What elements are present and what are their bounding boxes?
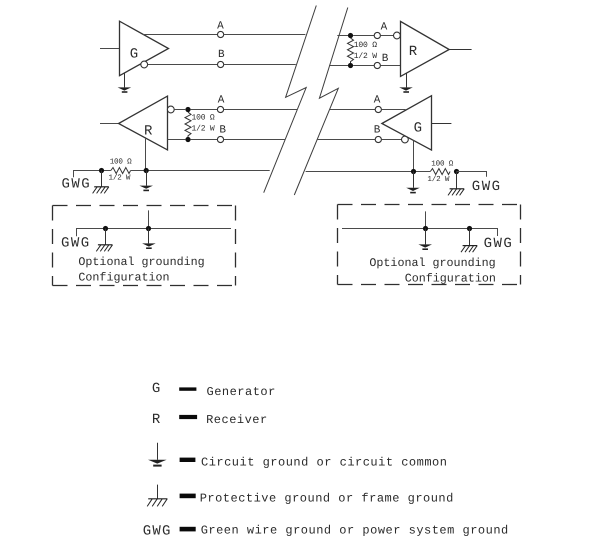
wire left bus to break [131,170,270,172]
svg-text:Optional grounding: Optional grounding [369,256,495,270]
svg-text:B: B [374,125,381,137]
circuit ground (right bus) [406,172,420,194]
legend protective ground dash [180,494,196,499]
protective ground (right box) [461,229,477,253]
dashed box (left optional grounding) [53,206,236,286]
legend protective ground symbol [147,485,167,507]
wire A bubble to dot (left, row 2) [174,109,185,111]
junction dot (left box protective ground) [103,226,108,231]
svg-text:B: B [382,53,389,65]
junction dot B-R1 [348,63,353,68]
wire R1 output stub [449,49,471,51]
wire R2 input stub [100,123,119,125]
protective ground (left box) [96,229,112,252]
wire right box bus [342,229,498,237]
wire B dot to terminal (left, row 2) [191,139,218,141]
wire A (G1 output to terminal) [143,34,218,36]
svg-text:R: R [144,124,153,140]
svg-text:B: B [218,49,225,61]
legend G dash [179,387,196,390]
svg-text:1/2 W: 1/2 W [192,124,215,133]
circuit ground (left bus) [139,171,153,192]
svg-text:Green wire ground or power sys: Green wire ground or power system ground [201,523,509,537]
bubble on G2 inverted output [402,136,409,143]
ground R1 (circuit ground) [399,73,413,93]
resistor RG1 (100 ohm, left bus) [111,168,131,174]
terminal B (right, row 2) [375,136,381,142]
op-amp G2 (generator, right row 2) [382,96,432,150]
svg-text:Protective ground or frame gro: Protective ground or frame ground [200,491,454,505]
op-amp R2 (receiver, left row 2) [119,96,168,150]
terminal B (right, row 1) [374,62,380,68]
svg-text:100 Ω: 100 Ω [110,157,132,166]
svg-text:A: A [381,21,388,33]
svg-text:Receiver: Receiver [206,413,268,427]
junction dot A-R1 [348,33,353,38]
svg-text:1/2 W: 1/2 W [109,173,131,182]
wire B terminal to R1 (right, row 1) [380,65,400,67]
wire right box riser [425,211,427,228]
ground G1 (circuit ground) [118,73,132,93]
resistor RT1 (100 ohm termination, row 1) [348,38,354,63]
wire GWG stub (left) [74,171,111,178]
circuit ground (left box) [142,229,156,250]
svg-text:GWG: GWG [143,523,172,539]
bubble on R1 inverted input [394,32,401,39]
wire B to break (left, row 1) [224,64,296,66]
wire A terminal to G2 (right, row 2) [381,109,405,111]
bubble on G1 inverted output [141,61,148,68]
wire left box riser [148,210,150,228]
wire B from break (right, row 1) [329,65,348,67]
svg-text:Circuit ground or circuit comm: Circuit ground or circuit common [201,456,447,470]
wire A from break (right, row 1) [337,35,348,37]
wire right bus from break [306,171,431,173]
wire G2 input stub [432,123,452,125]
resistor RT2 (100 ohm termination, row 2) [185,112,191,137]
svg-text:100 Ω: 100 Ω [354,41,377,50]
svg-text:R: R [152,412,161,428]
legend GWG dash [180,527,196,532]
svg-text:Optional grounding: Optional grounding [78,255,204,269]
dashed box (right optional grounding) [338,205,521,285]
terminal A (left, row 2) [217,106,223,112]
wire A from break (right, row 2) [330,109,375,111]
wire B terminal to bubble (right, row 2) [381,139,401,141]
svg-text:100 Ω: 100 Ω [431,160,453,169]
junction dot (left box circuit ground) [146,226,151,231]
svg-text:G: G [152,381,160,397]
svg-text:B: B [219,125,226,137]
junction dot (left protective ground) [99,168,104,173]
terminal B (left, row 2) [217,136,223,142]
wire B to break (left, row 2) [224,139,286,141]
protective ground (left bus) [93,171,109,194]
wire left box bus [77,229,232,237]
junction dot (right box circuit ground) [423,226,428,231]
svg-text:Configuration: Configuration [405,271,496,285]
legend circuit ground dash [180,458,196,462]
svg-text:G: G [130,47,138,63]
wire B from break (right, row 2) [317,139,375,141]
svg-text:1/2 W: 1/2 W [427,175,449,184]
wire A to break (left, row 2) [224,109,298,111]
svg-text:A: A [218,95,225,107]
wire A dot to terminal (right, row 1) [353,35,374,37]
svg-text:GWG: GWG [62,177,92,193]
cable break right zigzag [294,8,348,196]
legend circuit ground symbol [148,443,167,467]
wire B R2 edge to dot (left, row 2) [168,139,186,141]
circuit ground (right box) [418,229,432,251]
wire A dot to terminal (left, row 2) [191,109,218,111]
terminal A (right, row 1) [374,32,380,38]
op-amp G1 (generator, top-left) [120,21,169,75]
wire G2 ground stem [413,140,415,171]
svg-text:Generator: Generator [207,385,276,399]
terminal A (left, row 1) [218,31,224,37]
op-amp R1 (receiver, top-right) [401,21,450,76]
svg-text:A: A [217,20,224,32]
svg-text:A: A [374,95,381,107]
svg-text:100 Ω: 100 Ω [192,114,215,123]
wire GWG stub (right) [457,172,487,177]
svg-text:Configuration: Configuration [78,271,169,285]
junction dot A-RT2 [185,107,190,112]
wire G1 input stub [100,48,120,50]
cable break left zigzag [264,6,317,193]
protective ground (right bus) [448,172,464,196]
resistor RG2 (100 ohm, right bus) [430,169,450,175]
junction dot (left circuit ground) [144,168,149,173]
bubble on R2 inverted input [167,106,174,113]
svg-text:GWG: GWG [484,236,514,252]
svg-text:G: G [414,120,422,136]
wire B (G1 output to terminal) [148,64,218,66]
wire A terminal to bubble (right, row 1) [380,35,393,37]
svg-text:GWG: GWG [61,235,91,251]
legend R dash [179,415,197,419]
wire A to break (left, row 1) [224,34,306,36]
svg-text:GWG: GWG [472,179,502,195]
terminal B (left, row 1) [218,61,224,67]
junction dot (right circuit ground) [411,169,416,174]
wire B dot to terminal (right, row 1) [353,65,374,67]
terminal A (right, row 2) [375,106,381,112]
junction dot B-RT2 [185,137,190,142]
junction dot (right protective ground) [454,169,459,174]
wire R2 ground stem [145,137,147,170]
svg-text:R: R [409,44,418,60]
svg-text:1/2 W: 1/2 W [354,52,377,61]
junction dot (right box protective ground) [467,226,472,231]
